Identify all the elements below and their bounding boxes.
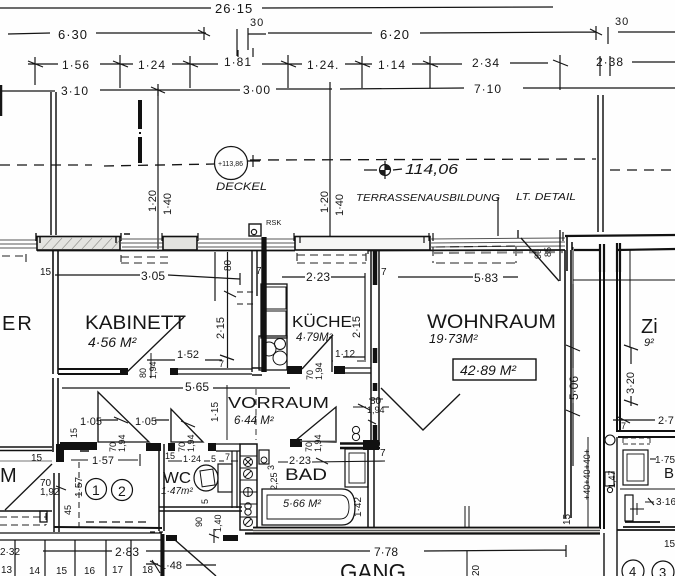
- door triangle T2: [171, 409, 203, 442]
- svg-text:4·56 M²: 4·56 M²: [88, 334, 138, 350]
- svg-text:2·83: 2·83: [115, 545, 139, 559]
- dim 30 ticks: [237, 28, 266, 56]
- svg-text:4: 4: [629, 564, 636, 576]
- svg-text:6·44 M²: 6·44 M²: [234, 415, 275, 427]
- svg-text:2: 2: [118, 483, 126, 499]
- svg-text:3·05: 3·05: [141, 269, 165, 283]
- svg-text:3·00: 3·00: [243, 83, 271, 97]
- right neighbour facade: [565, 235, 675, 236]
- svg-text:BAD: BAD: [285, 466, 327, 484]
- svg-text:1·57: 1·57: [92, 455, 114, 467]
- svg-text:KABINETT: KABINETT: [85, 313, 186, 334]
- wall M room top: [0, 447, 52, 451]
- vert dim line x365 with 2.15: [343, 273, 365, 360]
- svg-text:3·16: 3·16: [656, 497, 675, 508]
- svg-text:2·32: 2·32: [0, 547, 20, 558]
- svg-text:1·24: 1·24: [183, 454, 201, 464]
- svg-text:19·73M²: 19·73M²: [429, 331, 478, 346]
- left neighbour door leaf: [5, 464, 52, 510]
- svg-text:7: 7: [380, 448, 386, 459]
- svg-text:18: 18: [142, 565, 154, 576]
- dashed sill box W4: [433, 246, 516, 263]
- kabinett door leaf: [126, 317, 184, 373]
- WC left wall: [159, 444, 164, 531]
- svg-text:1·15: 1·15: [210, 402, 221, 422]
- dim 70 1.92 left: [56, 486, 66, 490]
- dim 2.23 kueche: [282, 276, 365, 278]
- stair arrow: [152, 560, 160, 573]
- kitchen left wall: [252, 250, 266, 372]
- svg-text:TERRASSENAUSBILDUNG: TERRASSENAUSBILDUNG: [356, 193, 500, 204]
- terrace vertical line x498: [497, 197, 499, 236]
- pier P3: [295, 237, 430, 251]
- dim 80 1.94 wohnraum door: [353, 399, 389, 410]
- figure8 switch: [352, 426, 359, 433]
- svg-text:WC: WC: [163, 470, 191, 487]
- BAD washbasin: [345, 449, 368, 487]
- svg-text:1·14: 1·14: [378, 58, 406, 72]
- entry wall jambs: [166, 535, 177, 541]
- svg-text:26·15: 26·15: [215, 1, 253, 16]
- svg-text:42·89 M²: 42·89 M²: [460, 362, 517, 378]
- terrace vertical line x330: [329, 96, 331, 238]
- circled 2: [112, 480, 133, 501]
- dashed sill box W2: [121, 255, 168, 263]
- boxed area 42.89 M2: [453, 359, 536, 380]
- party wall left (x53-58): [53, 250, 58, 374]
- neighbour dashed mirror box: [623, 438, 650, 444]
- svg-text:1·48: 1·48: [160, 560, 182, 572]
- terrace vertical line x158: [157, 88, 159, 249]
- svg-text:1: 1: [92, 482, 100, 498]
- svg-text:5·06: 5·06: [567, 376, 581, 400]
- pier P1: [37, 237, 120, 251]
- pier hatch lines: [42, 238, 196, 249]
- WC dim row: [168, 460, 238, 462]
- dashed entry line: [86, 521, 150, 523]
- bottom wall of flat: [253, 528, 600, 534]
- neighbour small box: [605, 472, 614, 486]
- svg-text:RSK: RSK: [266, 218, 281, 227]
- svg-text:1·52: 1·52: [177, 349, 199, 361]
- svg-text:VORRAUM: VORRAUM: [228, 395, 329, 412]
- svg-text:45: 45: [63, 505, 73, 515]
- svg-text:1·20: 1·20: [147, 190, 159, 212]
- svg-text:2·34: 2·34: [472, 56, 500, 70]
- dim 1.05 1.05: [100, 417, 195, 427]
- BAD door box: [259, 450, 269, 464]
- svg-text:ER: ER: [2, 313, 34, 335]
- svg-text:7: 7: [219, 359, 224, 369]
- svg-text:9²: 9²: [644, 337, 654, 349]
- terrace right double wall: [598, 95, 603, 232]
- left wall corner bottom: [54, 473, 59, 532]
- neighbour bath wall: [618, 431, 675, 437]
- window glazing W2: [120, 239, 163, 247]
- svg-text:1·24: 1·24: [138, 58, 166, 72]
- svg-text:1·12: 1·12: [335, 349, 355, 360]
- BAD dim 2.23: [278, 458, 385, 464]
- svg-text:1,94: 1,94: [313, 434, 323, 452]
- svg-text:+113,86: +113,86: [218, 161, 243, 168]
- axis bold dash-dot vertical: [138, 100, 142, 163]
- dim 3.10 line: [0, 56, 675, 96]
- svg-text:15: 15: [562, 513, 573, 525]
- svg-text:6·30: 6·30: [58, 27, 88, 42]
- svg-text:15: 15: [664, 539, 675, 550]
- door triangle T1: [98, 392, 149, 442]
- kitchen right / wohnraum left wall: [371, 250, 379, 390]
- svg-text:5: 5: [211, 454, 216, 464]
- dim 1.12: [332, 338, 366, 372]
- dashed level line across terrace: [0, 164, 92, 166]
- dim 1.57: [71, 454, 140, 466]
- svg-text:3: 3: [266, 465, 276, 470]
- svg-text:30: 30: [250, 17, 264, 29]
- svg-text:16: 16: [84, 566, 96, 576]
- wohnraum door leaves V: [381, 388, 460, 430]
- svg-text:4·79M²: 4·79M²: [296, 332, 334, 344]
- svg-text:80: 80: [138, 368, 148, 378]
- svg-text:KÜCHE: KÜCHE: [292, 313, 352, 331]
- circled 1: [86, 479, 107, 500]
- svg-text:90: 90: [533, 249, 543, 259]
- dim 2.7 right: [613, 417, 655, 423]
- svg-text:GANG: GANG: [340, 559, 406, 576]
- dim 3.20 vertical: [624, 345, 638, 406]
- entry door leaf: [175, 540, 216, 576]
- svg-text:7: 7: [256, 266, 262, 277]
- svg-text:1·42: 1·42: [353, 497, 364, 517]
- DECKEL circle: [215, 147, 248, 180]
- window glazing W1: [0, 240, 37, 248]
- svg-text:1·47m²: 1·47m²: [161, 486, 193, 497]
- party wall right lower: [600, 272, 604, 529]
- svg-text:80: 80: [223, 259, 234, 271]
- dashed sill box W1: [2, 254, 26, 262]
- svg-text:7: 7: [621, 421, 626, 431]
- svg-text:2,25: 2,25: [269, 472, 279, 490]
- svg-text:17: 17: [112, 565, 124, 576]
- svg-text:1·40: 1·40: [162, 193, 174, 215]
- svg-text:20: 20: [471, 564, 482, 576]
- wohnraum left wall lower: [371, 390, 379, 446]
- svg-text:85: 85: [543, 247, 553, 257]
- neighbour dim 1.75: [650, 458, 656, 460]
- dim total 26.15 line: [0, 7, 553, 8]
- survey marker 114,06: [364, 161, 402, 179]
- small box left edge: [40, 511, 47, 522]
- svg-text:7: 7: [225, 452, 230, 462]
- WC bottom wall: [159, 507, 242, 511]
- neighbour washbasin: [623, 450, 648, 485]
- svg-text:M: M: [0, 465, 17, 487]
- kueche door leaf: [302, 335, 333, 372]
- RSK shaft box: [249, 224, 261, 236]
- pier P2: [163, 237, 197, 251]
- window glazing W3: [197, 239, 295, 247]
- wall H2 kabinett bottom: [58, 369, 120, 374]
- dim 1.52: [147, 359, 222, 361]
- svg-text:1,40: 1,40: [213, 514, 223, 532]
- svg-text:1·05: 1·05: [135, 416, 157, 428]
- terrace left double wall: [51, 92, 56, 235]
- svg-text:1·57: 1·57: [74, 477, 85, 497]
- svg-text:1·24.: 1·24.: [307, 58, 339, 72]
- svg-text:5: 5: [200, 499, 210, 504]
- svg-text:WOHNRAUM: WOHNRAUM: [427, 312, 556, 333]
- inner face line of top wall: [37, 249, 565, 252]
- svg-text:LT. DETAIL: LT. DETAIL: [516, 192, 576, 203]
- svg-text:3·20: 3·20: [625, 372, 637, 394]
- WC cistern: [218, 464, 232, 492]
- svg-text:+40+40+40+: +40+40+40+: [582, 449, 592, 500]
- svg-text:1,94: 1,94: [314, 362, 324, 380]
- svg-text:114,06: 114,06: [405, 162, 459, 178]
- svg-text:7·78: 7·78: [374, 545, 398, 559]
- rotated 1.57 dashed line: [78, 462, 80, 530]
- svg-text:7: 7: [381, 267, 387, 278]
- stair numbers: [1, 565, 154, 576]
- kitchen counter unit: [261, 284, 287, 338]
- svg-text:15: 15: [69, 428, 79, 438]
- svg-text:1,94: 1,94: [148, 361, 158, 379]
- svg-text:1·05: 1·05: [80, 416, 102, 428]
- svg-text:3: 3: [659, 565, 666, 576]
- svg-text:1,94: 1,94: [117, 434, 127, 452]
- dim 6.30 line: [8, 27, 210, 40]
- wall VORRAUM bottom / WC top: [80, 444, 89, 451]
- svg-text:90: 90: [194, 517, 204, 527]
- svg-text:1,94: 1,94: [186, 434, 196, 452]
- svg-text:13: 13: [1, 565, 13, 576]
- svg-text:1·56: 1·56: [62, 58, 90, 72]
- svg-text:B: B: [664, 465, 674, 482]
- WC toilet bowl: [194, 465, 218, 491]
- svg-text:1·20: 1·20: [319, 191, 331, 213]
- wohnraum right wall: [565, 250, 571, 518]
- dim row ticks 1.56 etc: [28, 48, 675, 90]
- svg-text:14: 14: [29, 566, 41, 576]
- svg-text:2·38: 2·38: [596, 55, 624, 69]
- svg-text:5·65: 5·65: [185, 380, 209, 394]
- dim 6.20 line: [268, 26, 675, 44]
- svg-text:1·40: 1·40: [334, 194, 346, 216]
- svg-text:2·15: 2·15: [351, 316, 363, 338]
- bottom wall neighbour right: [617, 522, 675, 530]
- svg-text:15: 15: [165, 451, 175, 461]
- dim 2.83 and 7.78: [43, 545, 566, 557]
- svg-text:5·66 M²: 5·66 M²: [283, 498, 321, 510]
- rotated dim 1.15: [226, 385, 228, 440]
- svg-text:6·20: 6·20: [380, 27, 410, 42]
- svg-text:1,94: 1,94: [367, 405, 385, 415]
- vert dim line x227 with 80 and 2.15: [220, 252, 234, 368]
- vorraum dashed partition: [255, 389, 257, 440]
- svg-text:Zi: Zi: [641, 316, 658, 338]
- dim 3.05: [55, 252, 240, 301]
- BAD top wall: [290, 439, 302, 447]
- staircase: [0, 533, 162, 576]
- svg-text:1,92: 1,92: [40, 487, 60, 498]
- kitchen stove burners: [259, 336, 287, 370]
- svg-text:15: 15: [56, 566, 68, 576]
- door triangle T3: [295, 407, 336, 442]
- terrace door leaf: [518, 230, 560, 281]
- left image edge line: [0, 85, 2, 116]
- svg-text:15: 15: [31, 453, 43, 464]
- svg-text:5·83: 5·83: [474, 271, 498, 285]
- svg-text:DECKEL: DECKEL: [216, 181, 267, 193]
- wall pair x465: [465, 506, 469, 527]
- svg-text:2·7: 2·7: [658, 415, 674, 427]
- shaft column walls: [232, 451, 237, 508]
- svg-text:7·10: 7·10: [474, 82, 502, 96]
- window glazing W4: [430, 238, 565, 247]
- svg-text:2·23: 2·23: [289, 455, 311, 467]
- svg-text:2·23: 2·23: [306, 270, 330, 284]
- svg-text:2·15: 2·15: [215, 317, 227, 339]
- dim 1.48: [146, 561, 216, 567]
- svg-text:1,47: 1,47: [607, 470, 617, 488]
- svg-text:30: 30: [615, 16, 629, 28]
- dim 5.06 vertical: [566, 284, 580, 466]
- BAD right wall: [368, 448, 374, 527]
- dashed sill box W3: [297, 253, 366, 263]
- wall H2 under kitchen: [252, 368, 262, 375]
- circled 3: [652, 561, 674, 576]
- neighbour shower strip: [625, 495, 633, 521]
- rotated 20: [466, 551, 468, 576]
- bathtub: [262, 489, 355, 525]
- circled 4: [622, 560, 644, 576]
- svg-text:3·10: 3·10: [61, 84, 89, 98]
- svg-text:15: 15: [40, 267, 52, 278]
- left dashed balcony box: [0, 513, 46, 525]
- dim 5.83: [398, 276, 518, 278]
- dim 5.65: [62, 387, 290, 389]
- svg-text:1·81: 1·81: [224, 55, 252, 69]
- shaft symbols: [243, 458, 253, 527]
